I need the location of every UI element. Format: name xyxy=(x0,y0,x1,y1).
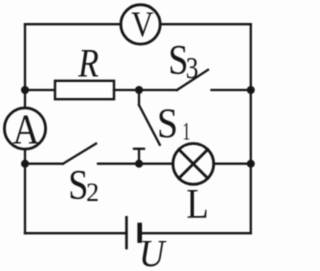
svg-text:2: 2 xyxy=(86,178,99,207)
svg-text:3: 3 xyxy=(186,52,199,86)
svg-text:S: S xyxy=(157,99,178,146)
svg-text:R: R xyxy=(77,41,98,85)
svg-text:U: U xyxy=(139,233,167,271)
svg-text:A: A xyxy=(13,105,40,153)
svg-text:V: V xyxy=(131,5,153,45)
svg-text:L: L xyxy=(186,181,208,228)
svg-text:1: 1 xyxy=(183,118,191,146)
